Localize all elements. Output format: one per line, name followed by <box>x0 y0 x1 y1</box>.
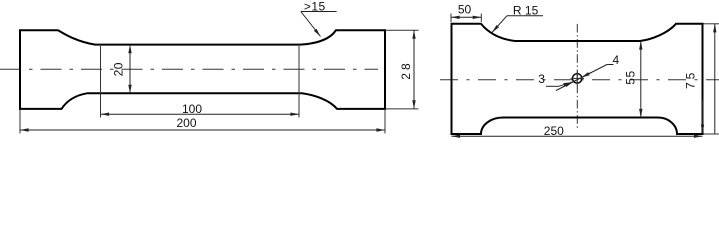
svg-text:55: 55 <box>624 70 638 84</box>
svg-text:50: 50 <box>458 2 472 16</box>
svg-text:20: 20 <box>112 62 126 76</box>
svg-text:100: 100 <box>182 102 202 116</box>
svg-text:250: 250 <box>544 124 564 138</box>
svg-text:28: 28 <box>399 60 413 79</box>
svg-text:4: 4 <box>612 53 619 67</box>
svg-text:3: 3 <box>538 72 545 86</box>
svg-text:200: 200 <box>176 116 196 130</box>
svg-text:75: 75 <box>684 70 698 89</box>
